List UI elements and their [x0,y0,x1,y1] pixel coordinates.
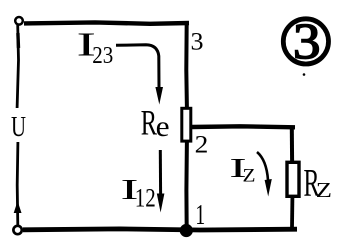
resistor Re body [182,108,191,141]
speckle below figure circle [303,73,306,76]
wire left upper (source branch) [17,25,18,108]
arrow I12 (down into node 1) [159,150,162,194]
wire right branch upper (node 2 to RZ) [290,127,294,161]
terminal bottom-left [13,226,21,234]
wire vertical main lower (Re to node 1) [184,141,189,230]
ink blob on left wire [16,33,20,48]
figure number circle [283,19,328,64]
terminal top-left [15,17,23,25]
arrowhead of U voltage arrow [14,201,22,213]
wire right branch lower (RZ to node 1 rail) [290,198,294,228]
svg-text:3: 3 [191,26,204,55]
svg-text:Z: Z [243,166,256,186]
svg-text:3: 3 [293,15,321,71]
arrowhead IZ [265,179,272,197]
arrow IZ (arc, downward) [257,152,268,180]
arrowhead I23 [155,87,163,105]
svg-text:2: 2 [195,129,209,158]
wire vertical main upper (3 to Re) [184,22,189,108]
arrow I23 (curved, down into node) [116,45,159,88]
wire left lower [16,142,19,225]
svg-text:12: 12 [135,183,156,213]
wire bottom rail (node 1) [23,229,297,230]
resistor RZ body [287,162,299,196]
wire top (node 3 rail) [24,22,189,23]
svg-text:U: U [11,112,26,143]
svg-text:23: 23 [92,43,113,69]
svg-text:Z: Z [316,178,332,202]
wire node2 branch (Re to RZ) [192,126,295,127]
arrowhead I12 [157,194,165,213]
svg-text:e: e [156,110,170,143]
node 1 junction dot [180,224,193,237]
svg-text:1: 1 [195,200,205,231]
